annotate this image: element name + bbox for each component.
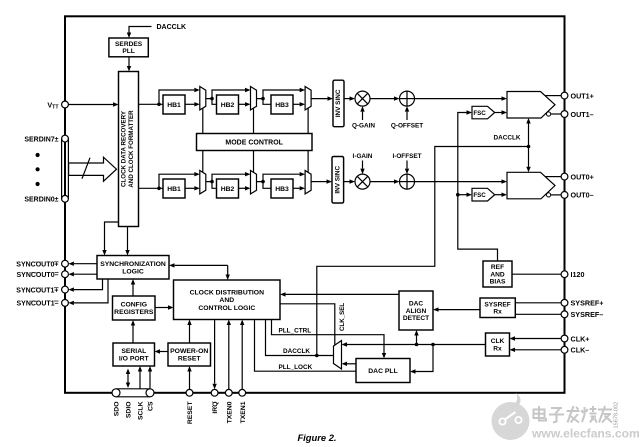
svg-text:I-GAIN: I-GAIN bbox=[353, 153, 373, 160]
adder Q-OFFSET bbox=[400, 91, 415, 106]
serdes input bus pill bbox=[62, 139, 69, 199]
caption Figure 2. bbox=[297, 432, 336, 443]
svg-text:I/O PORT: I/O PORT bbox=[119, 356, 150, 363]
wire multiplier to adder (I) bbox=[370, 179, 400, 183]
wire mux1 out (Q) bbox=[206, 97, 217, 105]
wire bias feed to FSC (I) bbox=[458, 193, 472, 197]
wire adder to DAC0 bbox=[415, 179, 508, 183]
inverse sinc filter (Q) bbox=[333, 80, 344, 127]
wire VTT to CDR bbox=[68, 102, 118, 106]
wire mux1 out (I) bbox=[206, 180, 217, 189]
clock data recovery and clock formatter bbox=[119, 72, 139, 227]
svg-text:SYSREF+: SYSREF+ bbox=[571, 299, 604, 308]
pin CS bbox=[146, 389, 155, 411]
wire SCLK to serial port bbox=[138, 366, 142, 389]
svg-text:CLK–: CLK– bbox=[571, 346, 590, 355]
wire TXEN0 to clock dist bbox=[227, 320, 231, 390]
mode control bbox=[197, 134, 313, 151]
wire DACCLK to DAC cores bbox=[526, 118, 530, 172]
watermark elecfans logo + text bbox=[492, 393, 640, 441]
svg-text:DACCLK: DACCLK bbox=[283, 348, 310, 355]
svg-text:CONFIG: CONFIG bbox=[121, 302, 147, 309]
svg-text:POWER-ON: POWER-ON bbox=[170, 348, 208, 355]
svg-text:SERIAL: SERIAL bbox=[121, 348, 146, 355]
wire config to sync bbox=[131, 279, 135, 296]
svg-text:TXEN1: TXEN1 bbox=[240, 401, 247, 423]
svg-text:SYNCOUT1–: SYNCOUT1– bbox=[16, 301, 58, 308]
wire FSC to DAC1 bbox=[495, 110, 507, 114]
wire POR to serial port bbox=[155, 349, 169, 353]
svg-text:FSC: FSC bbox=[473, 110, 486, 117]
pin OUT0+ bbox=[561, 172, 594, 181]
svg-text:HB2: HB2 bbox=[221, 186, 235, 193]
svg-text:SYNCHRONIZATION: SYNCHRONIZATION bbox=[100, 261, 166, 268]
wire SYSREF Rx to DAC align bbox=[433, 307, 480, 311]
wire CLK to DAC PLL bbox=[410, 345, 433, 374]
wire DAC1 to OUT1+ bbox=[546, 95, 562, 97]
wire CDR to sync logic (b) bbox=[125, 227, 129, 256]
wire CDR to HB1 (Q) bbox=[139, 103, 164, 107]
wire mux1 to mode control bbox=[202, 108, 204, 133]
DAC0 inverting bubble bbox=[547, 193, 551, 197]
wire bypass 3 (Q) bbox=[263, 88, 305, 99]
svg-text:SDIO: SDIO bbox=[126, 402, 133, 419]
svg-text:MODE CONTROL: MODE CONTROL bbox=[225, 139, 283, 146]
svg-text:HB2: HB2 bbox=[221, 102, 235, 109]
svg-text:FSC: FSC bbox=[473, 192, 486, 199]
FSC control (I) bbox=[472, 188, 495, 201]
clock mux bbox=[334, 341, 342, 370]
DAC1 inverting bubble bbox=[547, 112, 551, 116]
wire adder to DAC1 bbox=[415, 96, 508, 100]
wire SYSREF- to receiver bbox=[515, 313, 561, 315]
multiplier I-GAIN bbox=[355, 174, 370, 189]
serial I/O port bbox=[113, 343, 155, 366]
wire CS to serial port bbox=[148, 366, 152, 389]
serdes bus block arrow bbox=[69, 157, 117, 181]
wire HB3 out (I) bbox=[293, 186, 305, 190]
label I-GAIN + arrow bbox=[353, 153, 373, 174]
filter HB1 (I) bbox=[163, 179, 185, 198]
wire CDR to sync logic (a) bbox=[102, 222, 118, 256]
SERDES PLL bbox=[109, 38, 148, 57]
pin OUT1+ bbox=[561, 91, 594, 100]
svg-text:CLOCK DATA RECOVERY: CLOCK DATA RECOVERY bbox=[121, 110, 128, 187]
DAC PLL bbox=[356, 359, 410, 383]
svg-text:AND: AND bbox=[490, 271, 505, 278]
wire CLK_SEL bbox=[280, 304, 335, 345]
pin I120 bbox=[561, 270, 584, 279]
label PLL_LOCK bbox=[279, 364, 313, 371]
svg-text:DACCLK: DACCLK bbox=[494, 135, 521, 142]
svg-text:SYSREF–: SYSREF– bbox=[571, 310, 604, 319]
wire clock dist to IRQ bbox=[212, 320, 216, 390]
svg-text:AND CLOCK FORMATTER: AND CLOCK FORMATTER bbox=[128, 110, 135, 188]
label Q-OFFSET + arrow bbox=[391, 106, 423, 129]
mux 3 (I) bbox=[305, 171, 311, 194]
pin SERDIN7± bbox=[24, 135, 68, 143]
config registers bbox=[113, 296, 156, 320]
label PLL_CTRL bbox=[279, 328, 312, 335]
pin RESET bbox=[186, 389, 194, 424]
wire PLL_LOCK bbox=[255, 320, 357, 372]
wire mux2 out (I) bbox=[257, 180, 272, 189]
svg-text:SYNCOUT0+: SYNCOUT0+ bbox=[16, 262, 58, 269]
pin TXEN0 bbox=[225, 389, 233, 423]
ref and bias bbox=[483, 261, 512, 287]
mux 1 (Q) bbox=[200, 87, 206, 110]
svg-text:REGISTERS: REGISTERS bbox=[114, 309, 154, 316]
svg-text:SERDIN7±: SERDIN7± bbox=[24, 136, 58, 143]
wire DACCLK to clock dist bbox=[266, 320, 334, 358]
wire bypass 1 (Q) bbox=[159, 88, 200, 105]
label CLK_SEL bbox=[339, 303, 346, 331]
wire SDIO bidirectional bbox=[126, 369, 130, 389]
mux 1 (I) bbox=[200, 171, 206, 194]
svg-text:REF: REF bbox=[491, 264, 504, 271]
svg-text:SYNCOUT1+: SYNCOUT1+ bbox=[16, 287, 58, 294]
wire HB2 out (I) bbox=[239, 186, 251, 190]
pin SYSREF+ bbox=[561, 299, 603, 308]
wire bypass 3 (I) bbox=[263, 172, 305, 182]
power-on reset bbox=[168, 343, 211, 366]
label I-OFFSET + arrow bbox=[392, 153, 421, 174]
wire PLL_CTRL bbox=[272, 320, 387, 359]
svg-text:CS: CS bbox=[148, 401, 155, 411]
svg-text:15678-002: 15678-002 bbox=[614, 402, 620, 429]
mux 2 (Q) bbox=[251, 87, 257, 110]
wire INV SINC to multiplier (I) bbox=[344, 179, 355, 183]
wire CLK to DAC align detect bbox=[414, 330, 418, 345]
svg-text:SYSREF: SYSREF bbox=[484, 302, 510, 309]
wire DACCLK to SERDES PLL bbox=[127, 27, 152, 39]
svg-text:DAC PLL: DAC PLL bbox=[368, 368, 397, 375]
svg-text:CLOCK DISTRIBUTION: CLOCK DISTRIBUTION bbox=[190, 289, 264, 296]
wire CDR to HB1 (I) bbox=[139, 187, 164, 191]
wire INV SINC to multiplier (Q) bbox=[344, 96, 355, 100]
svg-text:HB1: HB1 bbox=[167, 102, 181, 109]
pin SYNCOUT0- bbox=[16, 271, 68, 279]
CLK receiver bbox=[486, 333, 510, 356]
pin VTT bbox=[47, 100, 68, 110]
mux 3 (Q) bbox=[305, 87, 311, 110]
label DACCLK (to clock dist) bbox=[283, 348, 310, 355]
wire mode control to mux1 (I) bbox=[202, 151, 204, 173]
wire sync to SYNCOUT0- bbox=[68, 272, 97, 276]
svg-text:SERDIN0±: SERDIN0± bbox=[24, 197, 58, 204]
inverse sinc filter (I) bbox=[332, 157, 344, 204]
svg-text:BIAS: BIAS bbox=[490, 279, 506, 286]
wire POR to clock dist bbox=[187, 320, 191, 344]
svg-text:DETECT: DETECT bbox=[403, 315, 429, 322]
svg-text:ALIGN: ALIGN bbox=[406, 308, 427, 315]
wire CLK Rx to clock mux bbox=[342, 342, 486, 346]
svg-text:HB3: HB3 bbox=[275, 102, 289, 109]
svg-text:DACCLK: DACCLK bbox=[157, 24, 187, 31]
pin SDO bbox=[112, 389, 121, 416]
svg-text:SYNCOUT0–: SYNCOUT0– bbox=[16, 272, 58, 279]
pin SYNCOUT1+ bbox=[16, 286, 68, 294]
svg-text:OUT1–: OUT1– bbox=[571, 110, 594, 119]
adder I-OFFSET bbox=[400, 174, 415, 189]
svg-text:HB3: HB3 bbox=[275, 186, 289, 193]
svg-text:Rx: Rx bbox=[493, 309, 502, 316]
filter HB1 (Q) bbox=[163, 95, 185, 114]
wire mux3 out to INV SINC (I) bbox=[311, 179, 332, 183]
wire sync to SYNCOUT1+ bbox=[68, 279, 102, 292]
wire HB1 out (I) bbox=[185, 186, 200, 190]
wire DAC1 to OUT1- bbox=[551, 113, 561, 115]
svg-text:HB1: HB1 bbox=[167, 186, 181, 193]
wire HB3 out (Q) bbox=[293, 102, 305, 106]
pin SYNCOUT1- bbox=[16, 300, 68, 308]
svg-text:INV SINC: INV SINC bbox=[335, 89, 342, 117]
serial pins pill bbox=[116, 389, 150, 397]
wire multiplier to adder (Q) bbox=[370, 96, 400, 100]
svg-text:CLK_SEL: CLK_SEL bbox=[339, 303, 346, 331]
wire bypass 1 (I) bbox=[159, 172, 200, 188]
svg-text:www.elecfans.com: www.elecfans.com bbox=[531, 427, 640, 441]
svg-text:Q-OFFSET: Q-OFFSET bbox=[391, 123, 423, 130]
svg-text:SERDES: SERDES bbox=[115, 41, 143, 48]
svg-text:PLL_CTRL: PLL_CTRL bbox=[279, 328, 312, 335]
filter HB2 (I) bbox=[217, 179, 239, 198]
svg-text:OUT0–: OUT0– bbox=[571, 191, 594, 200]
wire FSC to DAC0 bbox=[495, 193, 507, 197]
filter HB3 (Q) bbox=[271, 95, 293, 114]
wire config to clock dist bbox=[155, 305, 174, 309]
wire mode control to mux2 (I) bbox=[253, 151, 255, 173]
filter HB2 (Q) bbox=[217, 95, 239, 114]
wire bias feed bbox=[456, 110, 498, 261]
pin SYNCOUT0+ bbox=[16, 260, 68, 268]
svg-text:OUT1+: OUT1+ bbox=[571, 91, 594, 100]
node DACCLK (top label) bbox=[157, 24, 187, 31]
svg-text:CLK: CLK bbox=[491, 338, 505, 345]
wire SERDES PLL to CDR bbox=[127, 57, 131, 72]
wire mux2 to mode control bbox=[253, 108, 255, 133]
wire sync to SYNCOUT1- bbox=[68, 279, 108, 305]
wire DAC0 to OUT0+ bbox=[546, 176, 562, 178]
pin SCLK bbox=[138, 401, 145, 420]
label DACCLK (between DACs) bbox=[494, 135, 521, 142]
wire CLK+ to receiver bbox=[510, 336, 562, 340]
svg-text:DAC: DAC bbox=[409, 300, 424, 307]
svg-text:Rx: Rx bbox=[493, 345, 502, 352]
svg-text:INV SINC: INV SINC bbox=[335, 166, 342, 194]
svg-text:SDO: SDO bbox=[114, 402, 121, 417]
svg-text:CLK+: CLK+ bbox=[571, 334, 590, 343]
pin SYSREF- bbox=[561, 310, 603, 319]
pin TXEN1 bbox=[239, 389, 247, 423]
pin IRQ bbox=[211, 389, 219, 413]
wire mux3 out to INV SINC (Q) bbox=[311, 96, 333, 100]
wire mode control to mux3 (I) bbox=[307, 151, 309, 173]
pin CLK- bbox=[561, 346, 589, 355]
wire mux3 to mode control bbox=[307, 108, 309, 133]
pin CLK+ bbox=[561, 334, 589, 343]
wire bypass 2 (I) bbox=[212, 172, 251, 182]
wire SYSREF+ to receiver bbox=[515, 302, 561, 304]
chip boundary bbox=[65, 16, 565, 393]
svg-text:PLL_LOCK: PLL_LOCK bbox=[279, 364, 313, 371]
DAC core OUT0 bbox=[507, 172, 555, 199]
DAC align detect bbox=[399, 291, 433, 330]
wire HB2 out (Q) bbox=[239, 102, 251, 106]
pin OUT0- bbox=[561, 191, 594, 200]
svg-text:Q-GAIN: Q-GAIN bbox=[352, 123, 375, 130]
pin SDIO bbox=[126, 402, 133, 419]
svg-text:OUT0+: OUT0+ bbox=[571, 172, 594, 181]
svg-text:RESET: RESET bbox=[187, 401, 194, 425]
svg-text:I120: I120 bbox=[571, 270, 585, 279]
wire RESET to POR bbox=[187, 366, 191, 389]
SYSREF receiver bbox=[480, 298, 515, 318]
wire DACCLK feed route bbox=[317, 147, 529, 356]
svg-text:SCLK: SCLK bbox=[138, 401, 145, 420]
clock distribution and control logic bbox=[174, 280, 281, 320]
wire DAC PLL to clock mux bbox=[342, 362, 357, 366]
filter HB3 (I) bbox=[271, 179, 293, 198]
wire mux2 out (Q) bbox=[257, 97, 272, 105]
svg-text:Figure 2.: Figure 2. bbox=[297, 432, 336, 443]
label Q-GAIN + arrow bbox=[352, 106, 375, 129]
svg-text:I-OFFSET: I-OFFSET bbox=[392, 153, 421, 160]
pin OUT1- bbox=[561, 110, 594, 119]
wire serial to config bbox=[131, 320, 135, 343]
svg-text:PLL: PLL bbox=[122, 48, 134, 55]
wire sync to SYNCOUT0+ bbox=[68, 262, 97, 266]
wire sync to clock distribution bbox=[169, 263, 230, 280]
wire ref bias to I120 bbox=[512, 273, 561, 275]
svg-text:CONTROL LOGIC: CONTROL LOGIC bbox=[198, 305, 255, 312]
wire TXEN1 to clock dist bbox=[240, 320, 244, 390]
multiplier Q-GAIN bbox=[355, 91, 370, 106]
synchronization logic bbox=[97, 256, 169, 280]
pin SERDIN0± bbox=[24, 195, 68, 203]
svg-text:AND: AND bbox=[219, 297, 234, 304]
svg-text:IRQ: IRQ bbox=[212, 402, 219, 414]
FSC control (Q) bbox=[472, 106, 495, 119]
svg-text:RESET: RESET bbox=[178, 356, 202, 363]
wire bypass 2 (Q) bbox=[212, 88, 251, 99]
svg-text:LOGIC: LOGIC bbox=[122, 268, 144, 275]
ellipsis dots bbox=[36, 153, 40, 186]
wire HB1 out (Q) bbox=[185, 102, 200, 106]
svg-text:TXEN0: TXEN0 bbox=[226, 401, 233, 423]
figure number 15678-002 bbox=[614, 402, 620, 429]
wire DAC0 to OUT0- bbox=[551, 194, 561, 196]
wire CLK- to receiver bbox=[510, 348, 562, 352]
mux 2 (I) bbox=[251, 171, 257, 194]
DAC core OUT1 bbox=[507, 92, 555, 119]
wire DAC align to clock dist bbox=[280, 292, 399, 296]
